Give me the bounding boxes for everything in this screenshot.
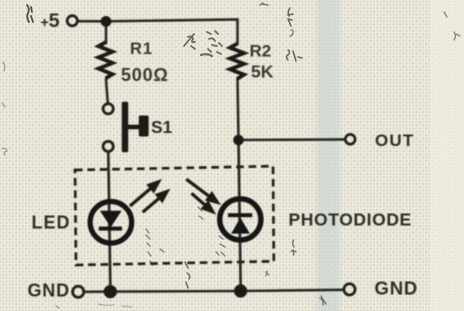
supply terminal +5 [67, 16, 77, 26]
svg-text:5K: 5K [251, 62, 274, 82]
wire top rail from +5 to R2 [78, 20, 238, 45]
wire ground bus [84, 290, 343, 292]
svg-text:PHOTODIODE: PHOTODIODE [289, 210, 412, 230]
svg-text:OUT: OUT [375, 131, 414, 150]
svg-text:GND: GND [375, 278, 419, 299]
photodiode light arrows [186, 179, 217, 212]
svg-text:+5: +5 [41, 10, 60, 32]
wire R1 bottom lead to S1 [106, 79, 108, 104]
node ground junction left [104, 285, 117, 298]
svg-text:500Ω: 500Ω [121, 65, 169, 85]
LED symbol [90, 202, 132, 244]
dashed optocoupler enclosure box [75, 166, 274, 265]
wire R1 top lead [105, 21, 108, 43]
svg-text:R2: R2 [250, 42, 272, 61]
svg-text:S1: S1 [151, 117, 173, 137]
photodiode symbol [220, 199, 261, 240]
ground terminal left [73, 286, 84, 297]
wire R2 bottom lead to OUT node [238, 79, 239, 141]
node junction top of R1 [101, 16, 112, 27]
svg-text:R1: R1 [130, 40, 153, 58]
LED light arrows [130, 182, 167, 212]
resistor R1 zigzag [99, 42, 113, 78]
switch S1 pushbutton [103, 102, 149, 152]
OUT terminal [345, 134, 355, 144]
wire OUT node down through photodiode to ground [239, 140, 241, 291]
wire OUT horizontal [239, 138, 345, 141]
resistor R2 zigzag [230, 44, 244, 79]
ground terminal right [344, 284, 355, 295]
node ground junction right [234, 284, 247, 297]
node OUT junction [233, 135, 244, 146]
svg-text:LED: LED [32, 212, 71, 232]
wire S1 to LED and down to ground [108, 152, 110, 292]
svg-text:GND: GND [28, 281, 70, 301]
